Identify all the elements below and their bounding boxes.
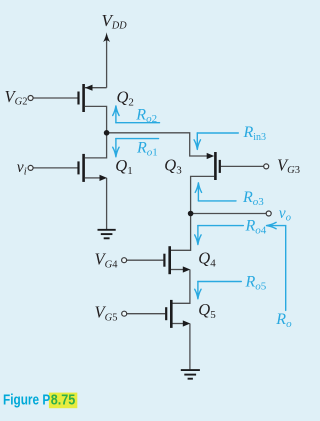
- wire Q1 source to ground: [106, 178, 108, 229]
- terminal VG2: [28, 96, 33, 101]
- wire Q2 source lead: [85, 87, 107, 89]
- junction node vo: [188, 211, 194, 217]
- wire Q4 source to Q5 drain: [173, 270, 190, 304]
- junction node A: [104, 130, 110, 136]
- wire Q2 gate: [33, 97, 77, 99]
- cyan measurement lines: [113, 106, 286, 311]
- terminal vo: [266, 211, 271, 216]
- wire Q5 source lead: [173, 323, 184, 325]
- wire Q1 drain lead: [85, 133, 107, 158]
- Ro4 line and arrow: [198, 225, 243, 227]
- Ro arrow line right: [267, 222, 286, 310]
- wire Q5 source to ground: [189, 324, 191, 370]
- ground under Q5: [181, 370, 200, 379]
- transistor Q1 body: [77, 161, 79, 174]
- Ro3 arrow and line: [195, 183, 201, 201]
- ground under Q1: [98, 230, 116, 239]
- transistor Q2 source arrow (PMOS): [85, 85, 93, 91]
- transistor Q5 source arrow (NMOS): [183, 320, 191, 326]
- wire Q3 gate: [221, 165, 264, 167]
- wire Q2 drain lead: [85, 106, 107, 132]
- wire Q4 source lead: [171, 269, 183, 271]
- wire Q3 drain lead: [191, 176, 215, 213]
- transistor Q4 source arrow (NMOS): [183, 266, 191, 272]
- transistor Q2 body: [77, 92, 79, 105]
- Ro1 line and arrow: [116, 138, 159, 140]
- transistor Q3 source arrow (PMOS): [207, 153, 215, 159]
- wire node A to Q3 source: [107, 133, 207, 156]
- terminal vi: [28, 165, 33, 170]
- svg-text:Figure P: Figure P: [3, 393, 50, 409]
- wire node vo: [191, 213, 267, 215]
- wire Q4 gate: [127, 259, 164, 261]
- wire Q1 source lead: [85, 177, 100, 179]
- terminal VG3: [264, 164, 269, 169]
- terminal VG5: [122, 311, 127, 316]
- Ro5 line and arrow: [198, 281, 241, 283]
- transistor Q3 body: [219, 160, 221, 173]
- wire VDD vertical: [106, 40, 108, 88]
- svg-text:8.75: 8.75: [51, 393, 76, 409]
- transistor Q4 body: [163, 254, 165, 267]
- VDD arrow: [103, 32, 110, 42]
- transistor Q5 body: [165, 307, 167, 320]
- wire Q5 gate: [127, 313, 166, 315]
- Ro2 arrow and line: [113, 106, 119, 123]
- wire Q1 gate: [33, 167, 77, 169]
- wire vo node down to Q4: [171, 214, 191, 251]
- terminal VG4: [122, 258, 127, 263]
- transistor Q1 source arrow (NMOS): [100, 175, 108, 181]
- figure caption highlight: [49, 393, 77, 409]
- Rin3 line and arrow: [197, 132, 238, 134]
